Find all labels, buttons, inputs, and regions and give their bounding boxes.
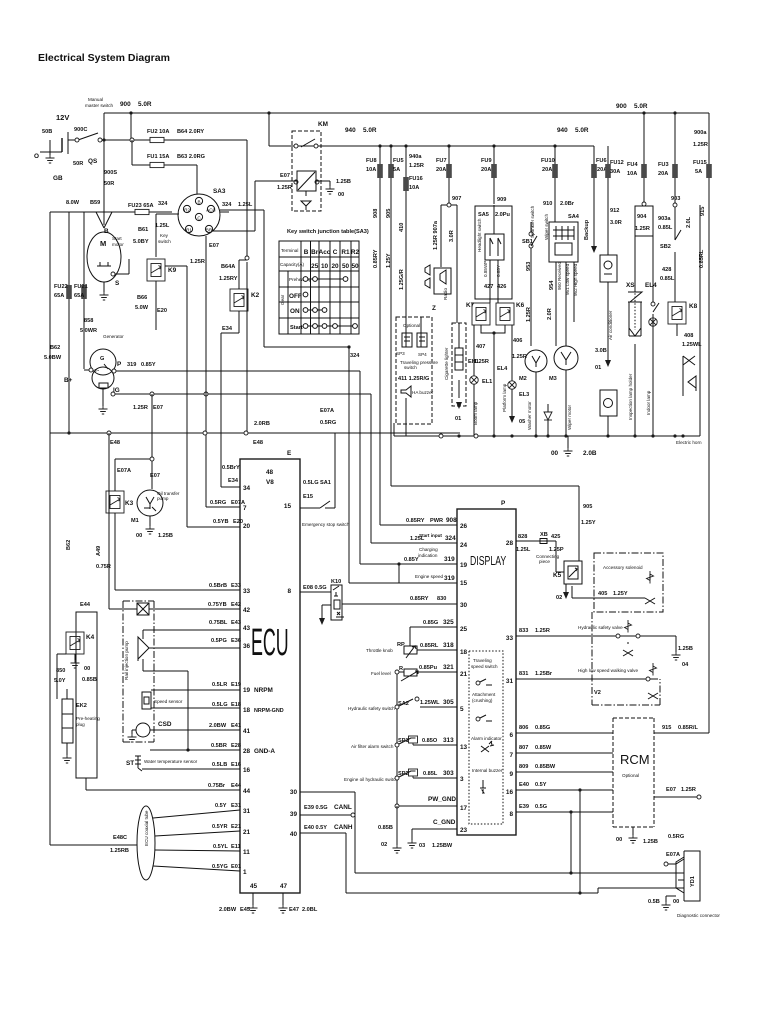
svg-text:R1: R1 (341, 249, 350, 256)
svg-text:900a: 900a (694, 130, 707, 136)
svg-text:0.5LG: 0.5LG (212, 702, 228, 708)
svg-text:PWR: PWR (430, 518, 443, 524)
svg-text:E39 0.5G: E39 0.5G (304, 805, 328, 811)
svg-text:0.5RG: 0.5RG (210, 500, 226, 506)
svg-text:R: R (399, 666, 403, 672)
svg-text:1.25L: 1.25L (516, 547, 531, 553)
svg-text:B+: B+ (64, 377, 73, 384)
svg-text:30A: 30A (610, 169, 620, 175)
svg-text:EL1: EL1 (482, 379, 492, 385)
svg-text:High low speed walking valve: High low speed walking valve (578, 668, 638, 673)
svg-text:XB: XB (540, 532, 548, 538)
svg-text:pump: pump (157, 496, 169, 501)
svg-text:952 High speed: 952 High speed (573, 263, 578, 296)
svg-text:3.0R: 3.0R (610, 220, 622, 226)
svg-text:Start: Start (112, 236, 122, 241)
svg-text:E45: E45 (240, 907, 250, 913)
svg-text:0.85L: 0.85L (423, 771, 438, 777)
svg-text:0.85O: 0.85O (422, 738, 438, 744)
svg-text:EL4: EL4 (497, 366, 508, 372)
svg-text:907: 907 (452, 196, 461, 202)
svg-text:GB: GB (53, 175, 63, 182)
svg-text:Water temperature sensor: Water temperature sensor (144, 759, 198, 764)
svg-text:50: 50 (342, 263, 350, 270)
svg-text:piece: piece (539, 559, 550, 564)
svg-text:25: 25 (311, 263, 319, 270)
svg-text:324: 324 (222, 202, 232, 208)
svg-text:FU7: FU7 (436, 158, 447, 164)
svg-text:01: 01 (455, 416, 461, 422)
svg-text:1.25R: 1.25R (190, 259, 205, 265)
svg-text:5A: 5A (695, 169, 702, 175)
svg-text:28: 28 (243, 748, 251, 755)
svg-text:0.5Y: 0.5Y (535, 782, 547, 788)
svg-text:A49: A49 (96, 546, 102, 556)
svg-text:PW_GND: PW_GND (428, 796, 456, 803)
svg-text:SP2: SP2 (398, 771, 409, 777)
svg-text:Rail injection pump: Rail injection pump (124, 641, 129, 680)
svg-text:41: 41 (243, 728, 251, 735)
svg-text:324: 324 (445, 535, 456, 542)
svg-text:1.25B: 1.25B (158, 533, 173, 539)
svg-text:E: E (287, 450, 292, 457)
svg-text:Wiper switch: Wiper switch (544, 214, 549, 240)
svg-text:Diagnostic connector: Diagnostic connector (677, 913, 720, 918)
svg-text:Engine oil hydraulic switch: Engine oil hydraulic switch (344, 777, 398, 782)
svg-text:E48: E48 (110, 440, 120, 446)
svg-text:0.5YL: 0.5YL (213, 844, 229, 850)
svg-text:908: 908 (373, 209, 379, 218)
svg-text:E07A: E07A (231, 500, 245, 506)
svg-text:SA1: SA1 (320, 480, 331, 486)
svg-text:FU22: FU22 (54, 284, 68, 290)
svg-text:0.5BR: 0.5BR (211, 743, 227, 749)
svg-text:E07: E07 (153, 405, 163, 411)
svg-text:940: 940 (345, 127, 356, 134)
svg-text:E18: E18 (231, 702, 241, 708)
svg-text:9: 9 (509, 771, 513, 778)
svg-text:SA3: SA3 (213, 188, 226, 195)
svg-text:940: 940 (557, 127, 568, 134)
svg-text:Speed sensor: Speed sensor (154, 699, 183, 704)
svg-text:Electrical System Diagram: Electrical System Diagram (38, 52, 170, 64)
svg-text:0.5PG: 0.5PG (211, 638, 227, 644)
svg-text:2.0BW: 2.0BW (209, 723, 227, 729)
svg-text:E33: E33 (231, 583, 241, 589)
svg-text:1: 1 (243, 869, 247, 876)
svg-text:E34: E34 (222, 326, 233, 332)
svg-text:P: P (117, 361, 122, 368)
svg-text:E20: E20 (157, 308, 167, 314)
svg-text:0.85G: 0.85G (535, 725, 550, 731)
svg-text:1.25R: 1.25R (409, 163, 424, 169)
svg-text:2.0Pu: 2.0Pu (495, 212, 511, 218)
svg-text:7: 7 (509, 752, 513, 759)
svg-text:18: 18 (460, 649, 468, 656)
svg-text:2.0RB: 2.0RB (254, 421, 270, 427)
svg-text:02: 02 (381, 842, 387, 848)
svg-text:1.25B: 1.25B (678, 646, 693, 652)
svg-text:410: 410 (399, 223, 405, 232)
svg-text:XS: XS (626, 282, 635, 289)
svg-text:E07A: E07A (666, 852, 680, 858)
svg-text:318: 318 (443, 642, 454, 649)
svg-text:Capacity(A): Capacity(A) (280, 262, 304, 267)
svg-text:50R: 50R (104, 181, 114, 187)
svg-text:1.25BW: 1.25BW (432, 843, 453, 849)
svg-text:1.25Y: 1.25Y (386, 253, 392, 268)
svg-text:20: 20 (331, 263, 339, 270)
svg-text:Platform lamp: Platform lamp (502, 383, 507, 412)
svg-text:E44: E44 (80, 602, 91, 608)
svg-text:plug: plug (76, 722, 85, 727)
svg-text:FU3: FU3 (658, 162, 669, 168)
svg-text:3.0R: 3.0R (449, 230, 455, 242)
svg-text:B66: B66 (137, 295, 147, 301)
svg-text:R2: R2 (351, 249, 360, 256)
svg-text:0.5B: 0.5B (648, 899, 660, 905)
svg-text:1.25R: 1.25R (535, 628, 550, 634)
svg-text:Gear: Gear (280, 294, 285, 305)
svg-text:903: 903 (671, 196, 680, 202)
svg-text:E48: E48 (253, 440, 263, 446)
svg-text:305: 305 (443, 699, 454, 706)
svg-text:V2: V2 (594, 690, 601, 696)
svg-text:E20: E20 (233, 519, 243, 525)
svg-text:E44: E44 (231, 783, 242, 789)
svg-text:15: 15 (284, 503, 292, 510)
svg-text:3~: 3~ (94, 368, 100, 373)
svg-text:28: 28 (506, 540, 514, 547)
svg-text:5: 5 (460, 706, 464, 713)
svg-text:319: 319 (444, 556, 455, 563)
svg-text:CANL: CANL (334, 804, 352, 811)
svg-text:(crushing): (crushing) (472, 698, 493, 703)
svg-text:0.85Y: 0.85Y (141, 362, 156, 368)
svg-text:0.5BrB: 0.5BrB (209, 583, 227, 589)
svg-text:20A: 20A (542, 167, 552, 173)
svg-text:0.85RY: 0.85RY (373, 249, 379, 268)
svg-text:0.85L: 0.85L (660, 276, 675, 282)
svg-text:E01: E01 (231, 864, 241, 870)
svg-text:25: 25 (460, 626, 468, 633)
svg-text:ON: ON (290, 308, 300, 315)
svg-text:Alarm indicator: Alarm indicator (471, 736, 502, 741)
svg-text:Fuel level: Fuel level (371, 671, 391, 676)
svg-text:411 1.25R/G: 411 1.25R/G (398, 376, 429, 382)
svg-text:Inspection lamp holder: Inspection lamp holder (628, 373, 633, 420)
svg-text:0.5LR: 0.5LR (212, 682, 227, 688)
svg-text:406: 406 (513, 338, 522, 344)
svg-text:40: 40 (290, 831, 298, 838)
svg-text:325: 325 (443, 619, 454, 626)
svg-text:807: 807 (519, 745, 528, 751)
svg-text:16: 16 (243, 767, 251, 774)
svg-text:02: 02 (556, 595, 562, 601)
svg-text:Hydraulic safety switch: Hydraulic safety switch (348, 706, 395, 711)
svg-text:Key switch junction table(SA3): Key switch junction table(SA3) (287, 229, 369, 235)
svg-text:Cigarette lighter: Cigarette lighter (444, 347, 449, 380)
svg-text:O: O (34, 153, 39, 160)
svg-text:903a: 903a (658, 216, 671, 222)
svg-text:42: 42 (243, 607, 251, 614)
svg-text:3: 3 (460, 776, 464, 783)
svg-text:Electric horn: Electric horn (676, 440, 702, 445)
svg-text:15: 15 (460, 580, 468, 587)
svg-text:K7: K7 (466, 302, 475, 309)
svg-text:0.85RY: 0.85RY (406, 518, 425, 524)
svg-text:20: 20 (243, 523, 251, 530)
svg-text:19: 19 (243, 687, 251, 694)
svg-text:G: G (100, 356, 104, 362)
svg-text:master switch: master switch (85, 103, 114, 108)
svg-text:915: 915 (700, 207, 706, 216)
svg-text:SP3: SP3 (396, 351, 405, 356)
svg-text:V8: V8 (266, 479, 274, 486)
svg-text:20A: 20A (658, 171, 668, 177)
svg-text:00: 00 (551, 450, 559, 457)
svg-text:0.85G: 0.85G (423, 620, 438, 626)
svg-text:CSD: CSD (158, 721, 172, 728)
svg-text:1.25RY: 1.25RY (219, 276, 238, 282)
svg-text:31: 31 (506, 678, 514, 685)
svg-text:Terminal: Terminal (281, 248, 298, 253)
svg-text:Attachment: Attachment (472, 692, 496, 697)
svg-text:5.0BW: 5.0BW (44, 355, 62, 361)
svg-text:23: 23 (460, 827, 468, 834)
svg-text:0.5Y: 0.5Y (215, 803, 227, 809)
svg-text:B: B (104, 228, 109, 235)
svg-text:Washer motor: Washer motor (527, 401, 532, 430)
svg-text:E34: E34 (228, 478, 239, 484)
svg-text:E07: E07 (280, 173, 290, 179)
svg-text:915: 915 (662, 725, 671, 731)
svg-text:0.75YB: 0.75YB (208, 602, 227, 608)
svg-text:0.85WP: 0.85WP (483, 261, 488, 277)
svg-text:17: 17 (460, 805, 468, 812)
svg-text:00: 00 (616, 837, 622, 843)
svg-text:50B: 50B (42, 129, 52, 135)
svg-text:0.85Pu: 0.85Pu (419, 665, 438, 671)
svg-text:828: 828 (518, 534, 527, 540)
svg-text:P: P (501, 500, 506, 507)
svg-text:24: 24 (460, 542, 468, 549)
svg-text:428: 428 (662, 267, 671, 273)
svg-text:0.5LG: 0.5LG (303, 480, 319, 486)
svg-text:E15: E15 (303, 494, 313, 500)
svg-text:900: 900 (120, 101, 131, 108)
svg-text:830: 830 (437, 596, 446, 602)
svg-text:KM: KM (318, 121, 328, 128)
svg-text:427: 427 (484, 284, 493, 290)
svg-text:900C: 900C (74, 127, 87, 133)
svg-text:7: 7 (243, 505, 247, 512)
svg-text:00: 00 (84, 666, 90, 672)
svg-text:5.0WR: 5.0WR (80, 328, 97, 334)
svg-text:50: 50 (351, 263, 359, 270)
svg-text:RCM: RCM (620, 752, 650, 767)
svg-text:0.85L: 0.85L (658, 225, 673, 231)
svg-text:0.85RY: 0.85RY (410, 596, 429, 602)
svg-text:E31: E31 (231, 803, 241, 809)
svg-text:48: 48 (266, 469, 274, 476)
svg-text:18: 18 (243, 707, 251, 714)
svg-text:Generator: Generator (103, 334, 124, 339)
svg-text:switch: switch (404, 365, 417, 370)
svg-text:E07: E07 (666, 787, 676, 793)
svg-text:34: 34 (243, 485, 251, 492)
svg-text:R2: R2 (184, 208, 190, 213)
svg-text:5.0R: 5.0R (138, 101, 152, 108)
svg-text:GND-A: GND-A (254, 748, 275, 755)
svg-text:FU10: FU10 (541, 158, 555, 164)
svg-text:SA4: SA4 (568, 214, 580, 220)
svg-text:motor: motor (112, 242, 124, 247)
svg-text:E07A: E07A (320, 408, 334, 414)
svg-text:425: 425 (551, 534, 560, 540)
svg-text:905: 905 (386, 209, 392, 218)
svg-text:912: 912 (610, 208, 619, 214)
svg-text:31: 31 (243, 808, 251, 815)
svg-text:E28: E28 (231, 743, 241, 749)
svg-text:10A: 10A (409, 185, 419, 191)
svg-text:E07: E07 (209, 243, 219, 249)
svg-text:E36: E36 (231, 638, 241, 644)
svg-text:16: 16 (506, 789, 514, 796)
svg-text:1.25L: 1.25L (238, 202, 253, 208)
svg-text:6: 6 (509, 732, 513, 739)
svg-text:E47: E47 (289, 907, 299, 913)
svg-text:1.25R 907a: 1.25R 907a (433, 220, 439, 250)
svg-text:E07: E07 (150, 473, 160, 479)
svg-text:E48C: E48C (113, 835, 127, 841)
svg-text:01: 01 (595, 365, 601, 371)
svg-text:900S: 900S (104, 170, 117, 176)
svg-text:Optional: Optional (622, 773, 639, 778)
svg-text:FU6: FU6 (596, 158, 607, 164)
svg-text:5A: 5A (393, 167, 400, 173)
svg-text:ST: ST (126, 760, 134, 767)
svg-text:0.5RG: 0.5RG (668, 834, 684, 840)
svg-text:Backup: Backup (584, 219, 590, 240)
svg-text:Emergency stop switch: Emergency stop switch (302, 522, 350, 527)
svg-text:809: 809 (519, 764, 528, 770)
svg-text:E39: E39 (519, 804, 529, 810)
svg-text:1.25R: 1.25R (133, 405, 148, 411)
svg-text:905: 905 (583, 504, 592, 510)
svg-text:E41: E41 (231, 723, 241, 729)
svg-text:833: 833 (519, 628, 528, 634)
svg-text:1.25R: 1.25R (277, 185, 292, 191)
svg-text:1.25L: 1.25L (155, 223, 170, 229)
svg-text:908: 908 (446, 517, 457, 524)
svg-text:0.75Br: 0.75Br (208, 783, 226, 789)
svg-text:831: 831 (519, 671, 528, 677)
svg-text:19: 19 (460, 562, 468, 569)
svg-text:HA buzzer: HA buzzer (412, 390, 434, 395)
svg-text:65A: 65A (54, 293, 64, 299)
svg-text:K3: K3 (125, 500, 134, 507)
svg-text:900: 900 (616, 103, 627, 110)
svg-text:DISPLAY: DISPLAY (470, 555, 506, 569)
svg-text:B62: B62 (50, 345, 60, 351)
svg-text:SP4: SP4 (418, 352, 427, 357)
svg-text:0.85R/L: 0.85R/L (678, 725, 698, 731)
svg-text:11: 11 (243, 849, 250, 856)
svg-text:10A: 10A (366, 167, 376, 173)
svg-text:K2: K2 (251, 292, 260, 299)
svg-text:B61: B61 (138, 227, 148, 233)
svg-text:indication: indication (418, 553, 438, 558)
svg-text:1.25R: 1.25R (526, 307, 532, 322)
svg-text:1.25RB: 1.25RB (110, 848, 129, 854)
svg-text:5.0Y: 5.0Y (54, 678, 66, 684)
svg-text:303: 303 (443, 770, 454, 777)
svg-text:M2: M2 (519, 376, 527, 382)
svg-text:B62: B62 (66, 540, 72, 550)
svg-text:43: 43 (243, 625, 251, 632)
svg-text:45: 45 (250, 883, 258, 890)
svg-text:408: 408 (684, 333, 693, 339)
svg-text:0.85B: 0.85B (82, 677, 97, 683)
svg-text:00: 00 (136, 533, 142, 539)
svg-text:Internal buzzer: Internal buzzer (472, 768, 503, 773)
svg-text:13: 13 (460, 744, 468, 751)
svg-text:47: 47 (280, 883, 288, 890)
svg-text:Start: Start (290, 325, 303, 331)
svg-text:1.25R: 1.25R (681, 787, 696, 793)
svg-text:switch: switch (158, 239, 171, 244)
svg-text:Acc: Acc (319, 249, 331, 256)
svg-text:E43: E43 (231, 620, 241, 626)
svg-text:S: S (115, 280, 120, 287)
svg-text:Accessory solenoid: Accessory solenoid (603, 565, 643, 570)
svg-text:426: 426 (497, 284, 506, 290)
svg-text:1.25R: 1.25R (474, 359, 489, 365)
svg-text:ACC: ACC (206, 208, 216, 213)
svg-text:5.0R: 5.0R (575, 127, 589, 134)
svg-text:FU15: FU15 (693, 160, 707, 166)
svg-text:05: 05 (519, 419, 525, 425)
svg-text:36: 36 (243, 643, 251, 650)
svg-text:321: 321 (443, 664, 454, 671)
svg-text:8: 8 (509, 811, 513, 818)
svg-text:951 Low speed: 951 Low speed (565, 263, 570, 295)
svg-text:04: 04 (682, 662, 689, 668)
svg-text:0.85Y: 0.85Y (404, 557, 419, 563)
svg-text:319: 319 (127, 362, 136, 368)
svg-text:NRPM: NRPM (254, 687, 273, 694)
svg-text:FU9: FU9 (481, 158, 492, 164)
svg-text:904: 904 (637, 214, 647, 220)
svg-text:0.85RL: 0.85RL (420, 643, 439, 649)
svg-text:324: 324 (350, 353, 360, 359)
svg-text:30: 30 (290, 789, 298, 796)
svg-text:B64 2.0RY: B64 2.0RY (177, 129, 204, 135)
svg-text:39: 39 (290, 811, 298, 818)
svg-text:QS: QS (88, 158, 98, 165)
svg-text:33: 33 (506, 635, 514, 642)
svg-text:2.0B: 2.0B (583, 450, 597, 457)
svg-text:0.85W: 0.85W (535, 745, 552, 751)
svg-text:EK2: EK2 (76, 703, 87, 709)
svg-text:1.25WL: 1.25WL (682, 342, 702, 348)
svg-text:FU16: FU16 (409, 176, 423, 182)
svg-text:B63 2.0RG: B63 2.0RG (177, 154, 205, 160)
svg-text:806: 806 (519, 725, 528, 731)
svg-text:407: 407 (476, 344, 485, 350)
svg-text:K8: K8 (689, 303, 698, 310)
